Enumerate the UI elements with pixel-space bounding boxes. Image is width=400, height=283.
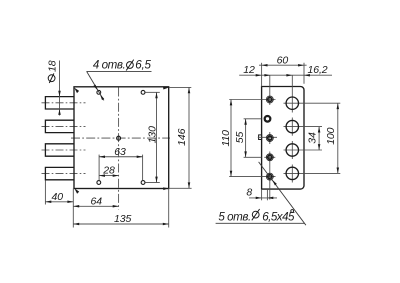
arrows 40: [45, 201, 51, 204]
centerline boss 3: [42, 149, 86, 151]
arrows 55: [244, 119, 247, 125]
small chamfered hole 5: [266, 173, 273, 180]
large hole 3: [286, 144, 298, 156]
dim line 64: [73, 205, 118, 207]
svg-text:6,5x45: 6,5x45: [262, 211, 295, 224]
ext line hole top-right for 130: [145, 91, 160, 93]
large hole4 row line (100): [284, 172, 341, 174]
ext line hole bottom-right for 130: [145, 182, 160, 184]
large hole1 row line (100): [284, 102, 341, 104]
hole top-left: [97, 90, 101, 94]
dim line 34: [318, 127, 320, 150]
hole bottom-right: [141, 181, 145, 185]
svg-text:5 отв.: 5 отв.: [218, 211, 250, 224]
ext line body top for 146: [169, 86, 191, 88]
small chamfered hole 3: [266, 135, 273, 142]
boss 2: [45, 120, 74, 132]
dim line 55: [245, 119, 247, 158]
svg-text:6,5: 6,5: [135, 59, 151, 72]
small chamfered hole 1: [266, 96, 273, 103]
large hole 2: [286, 120, 298, 132]
leader 5 holes callout: [216, 162, 306, 225]
ext line boss end for 40: [44, 180, 46, 204]
ext right edge up for 60: [303, 63, 305, 84]
arrows 146: [188, 87, 191, 93]
svg-text:18: 18: [47, 60, 59, 72]
leader arrow at hole 5: [272, 180, 277, 185]
dim line 146: [188, 87, 190, 188]
large hole 1: [286, 97, 298, 109]
svg-text:100: 100: [325, 127, 337, 144]
dim line 12 and 16,2: [239, 74, 332, 76]
svg-text:130: 130: [146, 126, 158, 143]
svg-text:64: 64: [91, 196, 103, 208]
hole top-right: [141, 90, 145, 94]
svg-text:63: 63: [114, 146, 126, 158]
dim line 60: [259, 64, 307, 66]
dim line 110: [230, 100, 232, 177]
arrow 12 right: [264, 74, 270, 77]
ext line body left edge bottom: [72, 189, 74, 228]
body outline: [74, 87, 169, 189]
arrows 64: [73, 205, 79, 208]
dim line 100: [337, 103, 339, 173]
svg-text:55: 55: [234, 132, 246, 144]
arrows 28: [99, 174, 105, 177]
svg-text:135: 135: [114, 213, 131, 225]
body outline right view: [262, 87, 304, 190]
arrows dia18: [58, 91, 61, 97]
svg-text:60: 60: [277, 55, 289, 67]
large hole 4: [286, 167, 298, 179]
centerline hole3 row: [258, 136, 277, 138]
boss 4: [45, 167, 74, 179]
main vertical centerline: [118, 88, 120, 210]
boss 3: [45, 144, 74, 156]
corner arrow top-right: [163, 87, 169, 90]
svg-text:8: 8: [246, 187, 252, 199]
svg-text:28: 28: [102, 164, 115, 176]
cross hole4: [264, 156, 275, 158]
arrows 60: [262, 64, 268, 66]
ext hole2 row (55): [244, 118, 262, 120]
small chamfered hole 4: [266, 154, 273, 161]
arrow 12 left: [256, 74, 262, 77]
svg-text:146: 146: [176, 128, 188, 145]
arrow 16,2 right: [304, 74, 310, 77]
arrow 8 right: [267, 197, 273, 200]
arrows 34: [318, 127, 321, 133]
large hole3 row line (34): [284, 149, 323, 151]
leader 4 holes callout: [87, 71, 152, 100]
corner arrow top-left: [74, 88, 79, 94]
ext line body right edge bottom: [168, 188, 170, 227]
svg-text:16,2: 16,2: [307, 64, 327, 76]
centerline boss 2: [42, 125, 86, 127]
leader arrows at hole: [93, 85, 97, 91]
ext/centerline hole1 row (110): [229, 99, 275, 101]
plain hole 2: [265, 116, 271, 122]
svg-text:40: 40: [52, 191, 64, 203]
dim line 28: [99, 175, 119, 177]
large hole column centerline top: [291, 75, 293, 112]
dim line 130: [156, 92, 158, 182]
ext left edge up for 60: [261, 63, 263, 87]
side tab: [259, 135, 262, 140]
svg-text:4 отв.: 4 отв.: [93, 59, 125, 72]
arrow 16,2 left: [286, 74, 292, 77]
centerline boss 4: [42, 173, 86, 175]
arrows 110: [230, 100, 233, 106]
large hole crosses vertical: [291, 118, 293, 136]
small hole column centerline top: [269, 75, 271, 105]
dim line 40: [45, 201, 73, 203]
corner arrow bottom-left: [74, 188, 79, 194]
ext hole2 column down for 8: [266, 189, 268, 200]
main horizontal centerline: [71, 137, 170, 139]
dim line 8: [249, 197, 277, 199]
degree mark: [291, 210, 294, 213]
dia symbol for 18: [48, 73, 55, 83]
ext line holes right column: [142, 155, 144, 181]
arrows 135: [73, 223, 79, 226]
hole center: [117, 136, 121, 140]
ext/centerline hole5 row (110): [229, 176, 275, 178]
arrow 8 left: [256, 197, 262, 200]
ext line holes left column: [98, 155, 100, 181]
ext hole4 row (55): [244, 156, 262, 158]
arrows 63: [99, 156, 105, 159]
small hole 3 vertical cross: [269, 132, 271, 144]
svg-text:12: 12: [243, 64, 255, 76]
corner arrow bottom-right: [163, 187, 169, 190]
dim line dia18: [59, 61, 61, 116]
large hole2 row line (34): [284, 126, 323, 128]
ext line body bottom for 146: [169, 187, 191, 189]
ext left edge down for 8: [261, 189, 263, 200]
small hole column line bottom (hole4-hole5-below): [269, 152, 271, 200]
centerline boss 1: [42, 102, 86, 104]
dim line 63: [99, 156, 143, 158]
arrows 130: [155, 92, 158, 98]
arrows 100: [337, 103, 340, 109]
svg-text:34: 34: [307, 132, 319, 144]
hole bottom-left: [97, 181, 101, 185]
boss 1: [45, 97, 74, 109]
svg-text:110: 110: [220, 130, 232, 147]
dim line 135: [73, 223, 168, 225]
